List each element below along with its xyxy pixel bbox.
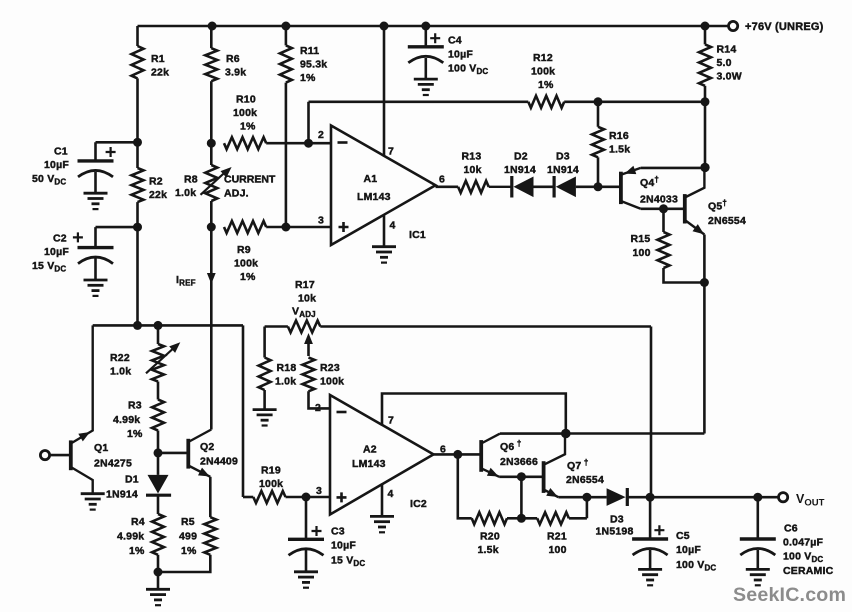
ground C6 [746,569,770,585]
svg-text:A2: A2 [363,444,377,456]
wire A2 pin 4 to ground [381,484,384,516]
svg-text:R22: R22 [110,352,130,364]
wire feedback from R12 to pin 2 [307,102,310,143]
svg-text:10µF: 10µF [331,540,356,552]
svg-text:2: 2 [318,129,324,141]
capacitor C4 [408,26,489,79]
svg-text:10µF: 10µF [448,49,473,61]
svg-text:C6: C6 [784,523,798,535]
svg-text:3.9k: 3.9k [225,67,246,79]
junction R8/R9/IREF [207,223,216,232]
capacitor C5 [632,497,716,572]
resistor R18 [259,327,297,410]
resistor R12 [528,52,564,108]
junction rail/C4 [421,22,430,31]
junction lower net/left column [133,321,142,330]
wire R12 feedback line [309,101,706,104]
ground A2 pin 4 [370,516,394,532]
junction Q7 emitter/R21/D3 [582,493,591,502]
wire Q6 collector [500,432,566,435]
svg-text:R17: R17 [295,279,315,291]
svg-text:1%: 1% [181,545,197,557]
svg-text:R9: R9 [237,244,251,256]
ground C2 [84,280,108,296]
wire Q7 emitter to D3 [558,496,606,499]
resistor R3 [113,400,164,453]
svg-text:CERAMIC: CERAMIC [783,565,834,577]
svg-text:R8: R8 [184,174,198,186]
svg-text:2N4409: 2N4409 [200,456,238,468]
svg-text:5.0: 5.0 [717,57,732,69]
resistor R5 [158,477,216,572]
svg-text:R6: R6 [226,53,240,65]
terminal input [40,451,70,460]
junction rail/R6 [208,22,217,31]
junction rail/R11 [281,22,290,31]
transistor Q4 2N4033 [621,166,678,209]
junction R12/R16 [594,97,603,106]
junction R12/R14 [701,97,710,106]
resistor R2 [132,142,168,227]
svg-text:C1: C1 [54,146,68,158]
resistor R22 (variable) [110,325,180,399]
resistor R21 [521,497,587,556]
junction output/C6 [753,493,762,502]
transistor Q5 2N6554 [685,167,746,234]
svg-text:499: 499 [179,531,197,543]
wire A1 pin 4 to ground [383,216,386,247]
junction lower net/R22 [154,321,163,330]
svg-text:4: 4 [388,488,394,500]
svg-text:IC1: IC1 [409,229,426,241]
wire left column down to lower net [136,227,139,325]
wire Q4 emitter to node [641,167,705,170]
wire Q4 collector to Q5 base [641,208,685,211]
diode D2 1N914 [504,151,553,198]
svg-text:R14: R14 [717,44,737,56]
svg-text:D2: D2 [514,151,528,163]
svg-text:CURRENT: CURRENT [224,174,276,186]
resistor R9 [224,221,331,283]
junction R15/Q5 emitter [700,278,709,287]
svg-text:2N4033: 2N4033 [640,194,678,206]
svg-text:100k: 100k [233,107,257,119]
wire A2 output to Q6 base [434,453,482,456]
wire R14 column to Q4/Q5 node [704,102,707,168]
svg-text:1.5k: 1.5k [478,544,499,556]
diode D3 1N914 [547,151,621,198]
ground Q1 [81,494,105,510]
diode D1 1N914 [106,453,171,501]
diode D3 1N5198 [596,488,634,538]
svg-text:2: 2 [315,402,321,414]
ground C1 [84,193,108,209]
svg-text:R3: R3 [128,400,142,412]
wire Q6 emitter drop to R20/R21 [520,477,523,519]
svg-text:R16: R16 [609,130,629,142]
junction rail/A1 pin7 [380,22,389,31]
svg-text:R15: R15 [631,233,651,245]
wire C2 tap [96,227,138,248]
resistor R23 [303,358,345,409]
svg-text:7: 7 [388,146,394,158]
svg-text:1N5198: 1N5198 [596,526,634,538]
junction R6/R10/R8 [207,139,216,148]
wire A1 output [436,186,459,189]
resistor R8 (variable) CURRENT ADJ. [175,143,276,227]
svg-text:4.99k: 4.99k [113,414,140,426]
resistor R1 [132,26,170,142]
svg-text:R20: R20 [480,531,500,543]
svg-text:100k: 100k [531,66,555,78]
svg-text:10µF: 10µF [44,159,69,171]
svg-text:D3: D3 [610,514,624,526]
svg-text:95.3k: 95.3k [300,59,327,71]
svg-text:R23: R23 [320,362,340,374]
svg-text:R10: R10 [236,94,256,106]
junction R20/R21 [517,514,526,523]
svg-text:6: 6 [439,174,445,186]
junction Q4 emitter/Q5 collector/R14 [700,163,709,172]
junction Q6 emitter/drop [517,472,526,481]
wire collectors node to Q5 emitter column [566,432,705,435]
svg-text:1.0k: 1.0k [110,366,131,378]
svg-text:2N3666: 2N3666 [500,456,538,468]
ground R18 [253,410,277,426]
wire Q5 emitter column [703,235,706,434]
svg-text:100k: 100k [320,376,344,388]
resistor R11 [280,26,327,227]
junction A2 out/R20 drop [453,450,462,459]
svg-text:10k: 10k [298,293,316,305]
wire lower net (Q1 emitter / R22 / to R19) [93,325,243,497]
svg-text:100k: 100k [234,258,258,270]
capacitor C6 [740,497,834,577]
svg-text:LM143: LM143 [352,458,386,470]
svg-text:10µF: 10µF [44,246,69,258]
junction diode line/R16 [594,182,603,191]
terminal +76V (UNREG) [729,21,824,33]
svg-text:R19: R19 [261,465,281,477]
svg-text:SeekIC.com: SeekIC.com [733,584,846,606]
potentiometer R17 VADJ [265,279,321,356]
junction output/C5/R17 line [646,493,655,502]
resistor R15 [631,209,705,283]
svg-text:100k: 100k [259,478,283,490]
wire +76V supply rail [138,25,729,28]
transistor Q7 2N6554 [544,434,604,498]
svg-text:A1: A1 [364,173,378,185]
wire C1 tap [96,142,138,161]
wire Q2 base [158,452,188,455]
svg-text:1%: 1% [240,271,256,283]
svg-text:Q1: Q1 [94,442,108,454]
ground C5 [638,569,662,585]
wire Q6 emitter to Q7 base [499,475,543,478]
resistor R19 [243,465,330,504]
svg-text:LM143: LM143 [357,191,391,203]
ground C4 [414,79,438,95]
svg-text:1.5k: 1.5k [609,144,630,156]
ground A1 pin 4 [372,247,396,263]
capacitor C1 [32,146,116,194]
svg-text:1%: 1% [300,72,316,84]
transistor Q2 2N4409 [188,430,238,477]
svg-text:4.99k: 4.99k [117,531,144,543]
wire A1 pin 2 input [309,142,332,145]
svg-text:10k: 10k [464,164,482,176]
svg-text:C3: C3 [331,526,345,538]
junction R10/pin2/feedback [304,139,313,148]
junction R4/R5 ground node [154,568,163,577]
svg-text:1N914: 1N914 [106,489,138,501]
svg-text:2N6554: 2N6554 [566,474,604,486]
svg-text:R2: R2 [149,176,163,188]
svg-text:1%: 1% [538,79,554,91]
svg-text:3: 3 [316,485,322,497]
op-amp A1 (IC1) [318,126,445,246]
svg-text:R18: R18 [277,362,297,374]
junction R3/D1/Q2 base [154,448,163,457]
svg-text:22k: 22k [149,189,167,201]
svg-text:1%: 1% [129,545,145,557]
svg-text:1.0k: 1.0k [275,376,296,388]
resistor R6 [205,26,246,143]
wire A2 pin 7 to Q6/Q7 collectors [382,394,566,434]
svg-text:100: 100 [633,247,651,259]
svg-text:R1: R1 [151,53,165,65]
ground C3 [294,572,318,588]
svg-text:3: 3 [318,215,324,227]
resistor R13 [458,151,511,193]
resistor R20 [472,512,522,556]
svg-text:C5: C5 [676,530,690,542]
junction R9/R11/pin3 [281,223,290,232]
wire IREF current source line [176,227,216,430]
svg-text:Q2: Q2 [200,441,214,453]
svg-text:R11: R11 [300,45,319,57]
svg-text:D3: D3 [556,151,570,163]
svg-text:1%: 1% [127,428,143,440]
svg-text:2N4275: 2N4275 [94,458,132,470]
capacitor C3 [288,497,365,572]
svg-text:+76V (UNREG): +76V (UNREG) [745,21,824,33]
svg-text:3.0W: 3.0W [717,71,742,83]
watermark SeekIC.com [733,584,846,606]
svg-text:R12: R12 [533,52,553,64]
wire R20 drop [458,454,472,518]
svg-text:1N914: 1N914 [547,164,579,176]
junction R2/C2 [133,223,142,232]
svg-text:C4: C4 [448,35,462,47]
svg-text:1N914: 1N914 [504,164,536,176]
svg-text:10µF: 10µF [676,544,701,556]
svg-text:0.047µF: 0.047µF [783,537,824,549]
wire R4/R5 node to ground [157,572,160,589]
ground R4/R5 [146,589,170,605]
wire output rail [627,496,778,499]
svg-text:ADJ.: ADJ. [224,188,249,200]
terminal VOUT [779,492,825,509]
capacitor C2 [32,232,114,280]
resistor R14 [699,26,742,102]
svg-text:1.0k: 1.0k [175,187,196,199]
svg-text:1%: 1% [240,121,256,133]
junction R1/R2/C1 [133,138,142,147]
svg-text:C2: C2 [53,233,67,245]
svg-text:R13: R13 [462,151,482,163]
resistor R4 [117,495,164,572]
svg-text:R4: R4 [131,516,145,528]
transistor Q1 2N4275 [71,325,132,493]
svg-text:R5: R5 [181,516,195,528]
svg-text:IC2: IC2 [410,498,427,510]
svg-text:2N6554: 2N6554 [708,215,746,227]
junction Q4 collector/R15 [659,204,668,213]
svg-text:100: 100 [549,544,567,556]
svg-text:22k: 22k [151,67,169,79]
svg-text:4: 4 [390,220,396,232]
svg-text:7: 7 [388,415,394,427]
transistor Q6 2N3666 [481,434,538,477]
svg-text:R21: R21 [547,531,567,543]
op-amp A2 (IC2) [315,395,446,515]
svg-text:D1: D1 [125,474,139,486]
resistor R16 [592,102,630,187]
junction Q6/Q7 collectors [561,429,571,439]
resistor R10 [224,94,309,150]
wire A1 pin 7 to rail [383,26,386,156]
wire R17 to output node [320,327,651,498]
junction R19/C3/pin3 [302,493,311,502]
junction rail/R14 [701,22,710,31]
